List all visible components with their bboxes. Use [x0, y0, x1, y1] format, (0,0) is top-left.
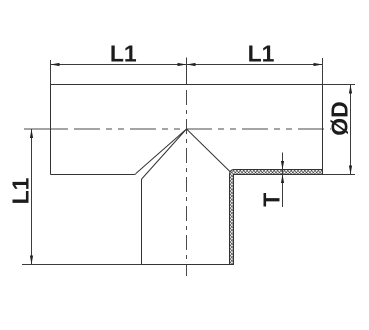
crotch line upper-left (apex to left weld toe): [136, 129, 187, 173]
arrow at left end pointing left: [51, 63, 60, 66]
arrow at bottom pointing down: [349, 166, 352, 175]
extension line: bottom of pipe to ØD dimension: [323, 174, 355, 176]
run pipe left end: [50, 85, 52, 175]
run pipe right end: [322, 85, 324, 175]
extension line above pipe, left end: [50, 60, 52, 85]
arrow pair at centre tick: [178, 63, 187, 66]
wall thickness T dimension line: [282, 153, 284, 208]
extension line above pipe, centre: [186, 58, 188, 85]
crotch line lower-left (apex to branch left wall): [142, 129, 187, 180]
run pipe bottom outline (left of branch): [51, 173, 137, 176]
top dimension line L1 + L1: [51, 64, 323, 66]
arrow at bottom pointing down: [30, 256, 33, 265]
vertical centerline of branch: [186, 90, 188, 276]
horizontal centerline of run pipe: [24, 128, 331, 130]
arrow below wall pointing up: [281, 175, 284, 184]
sectioned wall band (branch right wall + run pipe bottom wall), hatched: [230, 170, 323, 265]
arrow at right end pointing right: [314, 63, 323, 66]
arrow at top pointing up: [30, 129, 33, 138]
svg-text:L1: L1: [8, 177, 34, 204]
svg-text:L1: L1: [110, 41, 137, 67]
extension line: top of pipe to ØD dimension: [323, 84, 355, 86]
branch left wall: [141, 180, 143, 265]
left vertical dimension line L1: [31, 129, 33, 265]
svg-text:L1: L1: [248, 41, 275, 67]
crotch line right (apex to inner corner, sectioned side): [187, 129, 231, 172]
svg-text:T: T: [259, 193, 285, 207]
arrow above wall pointing down: [281, 161, 284, 170]
extension line: branch bottom to left dimension: [22, 264, 142, 266]
svg-text:ØD: ØD: [327, 101, 353, 136]
ØD dimension line (right): [350, 85, 352, 175]
extension line above pipe, right end: [322, 58, 324, 85]
run pipe top outline: [51, 84, 323, 86]
branch bottom end line: [142, 264, 234, 266]
arrow at top pointing up: [349, 85, 352, 94]
